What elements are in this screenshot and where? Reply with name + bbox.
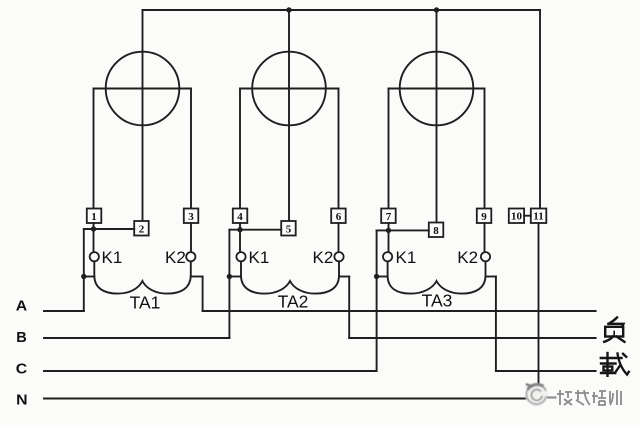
wire: TA3 output drop to phase C load line bbox=[495, 277, 497, 372]
wire: K2 of TA2 to primary bbox=[338, 261, 340, 276]
wire: terminal 11 drop to neutral bbox=[538, 223, 540, 399]
wire: TA3 primary right stub bbox=[486, 276, 496, 278]
wire: K1 of TA2 to primary bbox=[240, 261, 242, 276]
svg-text:8: 8 bbox=[433, 225, 439, 237]
wire: phase C riser bbox=[376, 230, 378, 371]
wire: M2 right drop to terminal 6 bbox=[338, 89, 340, 209]
wire: M3 left drop to terminal 7 bbox=[388, 89, 390, 209]
svg-text:K2: K2 bbox=[457, 248, 478, 267]
junction dot on bus at meter M2 bbox=[286, 7, 291, 12]
wire: terminal 4 to K1 of TA2 bbox=[239, 223, 241, 252]
terminal 2 bbox=[134, 221, 149, 236]
wire: K1 of TA1 to primary bbox=[93, 261, 95, 276]
wire: phase A supply line bbox=[44, 310, 84, 312]
junction dot phase A / TA1 primary bbox=[81, 274, 86, 279]
wire: neutral N line bbox=[44, 398, 539, 400]
wire: phase B supply line bbox=[44, 337, 229, 339]
wire: K2 of TA1 to primary bbox=[190, 261, 192, 276]
terminal circle K2 of TA1 bbox=[186, 252, 195, 261]
CT TA2 winding arcs bbox=[241, 277, 339, 294]
svg-text:K2: K2 bbox=[313, 248, 334, 267]
svg-text:TA2: TA2 bbox=[278, 292, 309, 312]
wire: terminal 1 to K1 of TA1 bbox=[93, 223, 95, 252]
wire: M3 right drop to terminal 9 bbox=[484, 89, 486, 209]
wire: bus drop to terminal 11 bbox=[539, 10, 541, 209]
terminal circle K2 of TA2 bbox=[334, 252, 343, 261]
wire: K1 of TA3 to primary bbox=[387, 261, 389, 276]
terminal circle K1 of TA1 bbox=[90, 252, 99, 261]
terminal circle K2 of TA3 bbox=[481, 252, 490, 261]
meter current coil M1 (circle) bbox=[106, 52, 180, 126]
svg-text:K1: K1 bbox=[102, 248, 123, 267]
wire: phase B riser bbox=[228, 230, 230, 338]
svg-text:6: 6 bbox=[336, 211, 342, 223]
terminal circle K1 of TA3 bbox=[383, 252, 392, 261]
terminal 11 bbox=[531, 209, 547, 224]
wire: TA1 primary left stub bbox=[84, 276, 95, 278]
junction dot terminal4 tap bbox=[237, 227, 242, 232]
terminal 7 bbox=[381, 209, 396, 224]
wire: M2 horizontal chord bbox=[240, 88, 339, 90]
junction dot phase B / TA2 primary bbox=[227, 274, 232, 279]
svg-text:N: N bbox=[16, 393, 28, 409]
watermark text 技成培训 (approximated strokes) bbox=[557, 390, 621, 405]
junction dot terminal1 tap bbox=[91, 226, 96, 231]
wire: M3 horizontal chord bbox=[389, 88, 485, 90]
svg-text:B: B bbox=[16, 330, 27, 346]
terminal circle K1 of TA2 bbox=[236, 252, 245, 261]
watermark dash bbox=[547, 396, 557, 398]
wire: M2 left drop to terminal 4 bbox=[239, 89, 241, 209]
svg-text:C: C bbox=[16, 362, 28, 378]
meter current coil M2 (circle) bbox=[252, 52, 326, 126]
terminal 4 bbox=[233, 209, 248, 224]
junction dot on bus at meter M3 bbox=[434, 7, 439, 12]
terminal 9 bbox=[477, 209, 492, 224]
wire: TA2 primary right stub bbox=[339, 276, 349, 278]
wire: phase A riser bbox=[83, 229, 85, 311]
svg-text:5: 5 bbox=[286, 223, 292, 235]
CT TA3 winding arcs bbox=[388, 277, 486, 294]
svg-text:TA3: TA3 bbox=[422, 291, 453, 311]
wire: TA2 output drop to phase B load line bbox=[348, 277, 350, 339]
terminal 1 bbox=[87, 209, 102, 224]
svg-text:4: 4 bbox=[237, 211, 243, 223]
terminal 8 bbox=[429, 223, 444, 238]
wire: terminal 7 to K1 of TA3 bbox=[388, 223, 390, 252]
wire: TA1 primary right stub bbox=[191, 276, 203, 278]
wire: M1 horizontal chord bbox=[94, 88, 192, 90]
wire: phase A load line bbox=[203, 310, 596, 312]
wire: TA1 output drop to phase A load line bbox=[202, 277, 204, 312]
terminal 6 bbox=[331, 209, 346, 224]
terminal 10 bbox=[509, 209, 524, 224]
wire: phase C load line bbox=[496, 370, 596, 372]
junction dot terminal7 tap bbox=[386, 228, 391, 233]
watermark logo swirl bbox=[525, 383, 548, 406]
wire: terminal 3 to K2 of TA1 bbox=[190, 223, 192, 252]
wire: terminal 9 to K2 of TA3 bbox=[484, 223, 486, 252]
svg-text:11: 11 bbox=[533, 210, 543, 222]
wire: M1 right drop to terminal 3 bbox=[190, 89, 192, 209]
wire: TA3 primary left stub bbox=[377, 276, 388, 278]
svg-text:TA1: TA1 bbox=[130, 293, 161, 313]
wire: connector terminal7/terminal8 (voltage tap TA3) bbox=[377, 229, 429, 231]
wire: link between terminals 10 and 11 bbox=[524, 215, 531, 217]
CT TA1 winding arcs bbox=[94, 277, 191, 294]
svg-text:9: 9 bbox=[481, 211, 487, 223]
meter current coil M3 (circle) bbox=[400, 52, 474, 126]
wire: top voltage bus bbox=[143, 9, 541, 11]
svg-text:7: 7 bbox=[386, 211, 392, 223]
wire: terminal 6 to K2 of TA2 bbox=[338, 223, 340, 252]
terminal 5 bbox=[281, 221, 296, 236]
wire: TA2 primary left stub bbox=[229, 276, 241, 278]
svg-text:K1: K1 bbox=[249, 248, 270, 267]
wire: M1 left drop to terminal 1 bbox=[93, 89, 95, 209]
wire: K2 of TA3 to primary bbox=[485, 261, 487, 276]
wire: M1 center vertical (bus to terminal 2) bbox=[142, 10, 144, 221]
junction dot phase C / TA3 primary bbox=[374, 274, 379, 279]
svg-text:1: 1 bbox=[91, 211, 97, 223]
svg-text:3: 3 bbox=[188, 211, 194, 223]
label 负 (load) bbox=[604, 318, 624, 342]
terminal 3 bbox=[184, 209, 199, 224]
label 载 (load) bbox=[601, 353, 629, 376]
svg-text:10: 10 bbox=[511, 210, 523, 222]
svg-text:A: A bbox=[16, 299, 28, 315]
wire: M3 center vertical (bus to terminal 8) bbox=[436, 10, 438, 223]
wire: connector terminal1/terminal2 (voltage tap TA1) bbox=[84, 228, 134, 230]
wire: connector terminal4/terminal5 (voltage tap TA2) bbox=[229, 229, 281, 231]
wire: phase C supply line bbox=[44, 370, 377, 372]
svg-text:2: 2 bbox=[139, 223, 145, 235]
wire: M2 center vertical (bus to terminal 5) bbox=[288, 10, 290, 222]
wire: phase B load line bbox=[349, 337, 595, 339]
svg-text:K1: K1 bbox=[396, 248, 417, 267]
svg-text:K2: K2 bbox=[165, 248, 186, 267]
